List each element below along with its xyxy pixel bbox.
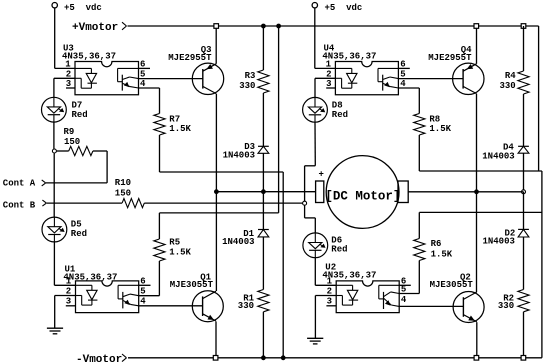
label Q2 [460,272,471,282]
label R7 [169,114,191,134]
svg-text:3: 3 [327,297,332,307]
wire U1 pin4 to Q1 base [139,305,203,307]
wire V1 bus [159,26,278,239]
wire U3 pin4 to R7 [139,88,160,114]
label D4 [482,143,514,162]
label MJE2955T right [428,53,472,63]
svg-text:Red: Red [72,110,88,120]
wire R3 to D3 [262,93,264,146]
net label Cont A [3,178,46,188]
pin 1 U1 [66,276,72,286]
motor M1 body [326,156,399,229]
node Q2 rail square [474,356,479,361]
motor terminal box right [398,181,408,203]
svg-text:Cont B: Cont B [3,200,36,210]
diode D1 1N4003 [258,230,269,237]
wire D3 to motor A wire [262,153,264,191]
node step Cont B junction [303,201,307,205]
pin 4 U3 [140,79,146,89]
net label Cont B [3,200,47,210]
wire U2 pin6 stub [399,284,411,286]
transistor Q2 MJE3055T [453,292,484,323]
svg-text:2: 2 [66,286,71,296]
wire U3 pin3 stub [66,87,75,89]
node R3 rail dot [262,24,266,28]
svg-text:Cont A: Cont A [3,178,36,188]
svg-text:150: 150 [115,188,131,198]
svg-text:1N4003: 1N4003 [482,237,514,247]
diode D4 1N4003 [518,146,529,153]
label R5 [169,238,191,258]
pin 6 U1 [140,276,145,286]
node R9 junction [52,149,56,153]
wire R8 to right edge [419,135,542,171]
pin 5 U4 [400,70,405,80]
svg-text:1: 1 [326,59,332,69]
label R8 [429,114,451,134]
svg-text:MJE2955T: MJE2955T [428,53,472,63]
label D6 [331,236,347,255]
diode D3 1N4003 [258,146,269,153]
node Q3 rail junction [214,24,219,29]
node R4 rail square [521,24,526,29]
wire +5 to U3 pin1 [55,8,75,69]
wire Q2 emitter to rail [476,322,478,358]
wire Cont B to R10 [47,202,122,204]
svg-text:330: 330 [239,81,255,91]
opto U2 body [336,281,399,313]
wire U4 pin4 to R8 [398,88,419,114]
wire +Vmotor rail [128,25,539,27]
resistor R2 [518,290,529,312]
wire U4 pin6 stub [398,67,409,69]
label MJE2955T [168,53,212,63]
pin 3 U3 [66,79,71,89]
wire R7 to -V bus [160,135,284,358]
svg-text:MJE3055T: MJE3055T [430,280,474,290]
wire rail to R4 [523,26,525,71]
svg-text:[DC Motor]: [DC Motor] [325,190,400,204]
svg-text:1.5K: 1.5K [429,124,451,134]
svg-text:1N4003: 1N4003 [223,151,255,161]
node R1 rail dot [262,356,266,360]
wire rail to R3 [262,26,264,70]
pin 1 U2 [327,276,333,286]
svg-text:2: 2 [66,69,71,79]
ground U2 [307,338,323,344]
label R1 [238,294,255,312]
svg-text:+: + [318,169,323,179]
svg-text:1.5K: 1.5K [169,124,191,134]
resistor R4 [518,71,529,94]
svg-text:+5 vdc: +5 vdc [325,3,363,13]
wire motor A column to D1 [262,192,264,230]
wire U1 pin3 stub [66,305,76,307]
node Q1 rail square [213,356,218,361]
wire Q4/Q2 collector bus [476,94,478,292]
wire H4 branch to R6 [419,212,542,238]
wire node to D5 [53,153,55,217]
label R3 [239,71,255,91]
label D2 [482,228,515,246]
label DC Motor [325,190,400,204]
wire U3 pin5 to Q3 base [139,78,203,80]
label Q4 [461,45,472,55]
label D3 [223,142,255,160]
wire D5 to U1 pin1 [54,242,75,285]
wire +5 right to U4 pin1 [315,8,336,69]
terminal +5 vdc (left) [52,2,102,13]
svg-text:150: 150 [64,137,80,147]
wire U3 pin6 stub [139,67,151,69]
svg-text:1.5K: 1.5K [169,248,191,258]
label D8 [332,100,348,120]
label D5 [71,219,87,239]
svg-text:330: 330 [499,81,515,91]
label D1 [222,229,254,247]
wire U3 pin2 to D7 [54,78,75,97]
svg-text:4: 4 [140,297,146,307]
wire Q4 emitter to rail [476,26,478,64]
wire U2 pin3 stub [326,305,336,307]
opto U4 body [335,62,398,95]
wire R1 to rail [262,312,264,358]
svg-text:MJE2955T: MJE2955T [168,53,212,63]
op-to U3 body [75,62,139,95]
node motor A D-column dot [262,190,266,194]
node motor A collector junction [215,190,219,194]
label R2 [498,294,514,312]
svg-text:1N4003: 1N4003 [222,237,254,247]
wire U1 pin2 to ground [55,296,76,329]
wire Q3 emitter to rail [215,26,217,64]
terminal +5 vdc (right) [312,2,362,13]
svg-text:4: 4 [401,295,407,305]
svg-text:330: 330 [238,301,254,311]
svg-text:+5 vdc: +5 vdc [64,3,102,13]
wire R10 to step node [144,202,304,204]
resistor R6 [414,239,425,261]
resistor R5 [154,239,165,261]
label U3 [62,44,116,62]
wire R9 to Cont A line [106,151,108,183]
pin 2 U2 [327,286,332,296]
wire D8 to motor step [305,122,316,233]
LED D5 [42,217,67,242]
svg-text:R6: R6 [431,239,442,249]
wire U2 pin4 to Q2 base [399,305,463,307]
resistor R3 [258,70,269,93]
pin 1 U4 [326,59,332,69]
svg-text:R3: R3 [245,71,256,81]
wire right edge upper [538,26,540,171]
wire R5 to U1 pin5 [139,261,160,296]
wire D4 to motor B node [523,153,525,192]
label U2 [322,262,376,280]
svg-text:Red: Red [331,244,347,254]
pin 5 U2 [401,284,406,294]
pin 2 U3 [66,69,71,79]
pin 5 U1 [140,286,145,296]
opto U1 body [76,281,139,313]
svg-text:2: 2 [327,286,332,296]
label motor plus [318,169,323,179]
node R2 rail square [521,356,526,361]
label R4 [499,71,516,91]
transistor Q4 MJE2955T [453,63,484,94]
wire D1 to R1 [262,237,264,290]
net label +Vmotor [72,22,127,34]
pin 6 U3 [140,59,145,69]
svg-text:MJE3055T: MJE3055T [170,280,214,290]
pin 2 U1 [66,286,71,296]
svg-text:1.5K: 1.5K [431,250,453,260]
svg-text:R10: R10 [115,178,131,188]
node V1 rail dot [277,24,281,28]
wire node to D2 [523,192,525,230]
svg-text:R9: R9 [64,127,75,137]
wire R4 to D4 [523,94,525,146]
svg-text:R8: R8 [429,114,440,124]
LED D7 [42,97,67,122]
wire U2 pin2 to ground [315,296,336,339]
svg-text:1: 1 [66,276,72,286]
resistor R1 [258,290,269,312]
resistor R8 [414,114,425,136]
wire R2 to rail [523,312,525,358]
wire U1 pin6 stub [139,284,151,286]
svg-text:1: 1 [327,276,333,286]
wire U4 pin5 to Q4 base [398,78,463,80]
resistor R9 [57,146,107,155]
net label -Vmotor [76,354,127,364]
wire U4 pin3 stub [326,87,335,89]
diode D2 1N4003 [518,229,529,237]
label D7 [72,100,88,120]
svg-text:-Vmotor: -Vmotor [76,354,122,364]
motor terminal box left [316,181,324,203]
node Q4 rail square [474,24,479,29]
svg-text:1N4003: 1N4003 [482,151,514,161]
svg-text:2: 2 [326,69,331,79]
pin 4 U4 [400,79,406,89]
wire Q1 emitter to rail [215,321,217,357]
label MJE3055T right [430,280,474,290]
wire D6 to U2 pin1 [315,258,336,286]
wire motor terminal B [408,191,523,193]
pin 6 U2 [401,276,406,286]
svg-text:+Vmotor: +Vmotor [72,22,118,34]
pin 2 U4 [326,69,331,79]
label R6 [431,239,453,260]
pin 1 U3 [65,59,71,69]
node -V bus dot [281,356,285,360]
transistor Q3 MJE2955T [192,63,223,94]
svg-text:330: 330 [498,301,514,311]
svg-text:D8: D8 [332,100,343,110]
pin 3 U4 [326,79,331,89]
LED D8 [303,97,328,122]
label R10 [115,178,131,198]
ground U1 [47,328,63,334]
label Q1 [200,272,211,282]
label MJE3055T [170,280,214,290]
svg-text:Red: Red [71,229,87,239]
pin 3 U2 [327,297,332,307]
node motor B terminal circle [522,190,526,194]
wire D2 to R2 [523,237,525,290]
resistor R10 [122,199,144,208]
label U4 [322,44,376,62]
wire right edge lower [541,171,543,358]
wire motor terminal A [216,191,315,193]
svg-text:3: 3 [66,297,71,307]
svg-text:D5: D5 [71,219,82,229]
pin 6 U4 [400,59,405,69]
wire -Vmotor rail [128,357,542,359]
svg-text:Red: Red [332,110,348,120]
svg-text:4N35,36,37: 4N35,36,37 [63,272,117,282]
pin 4 U1 [140,297,146,307]
label U1 [63,264,117,282]
label Q3 [201,45,212,55]
svg-text:R4: R4 [505,71,516,81]
node motor B collector dot [475,190,479,194]
wire U4 pin2 to D8 [315,78,335,97]
pin 5 U3 [140,70,145,80]
svg-text:R7: R7 [169,114,180,124]
svg-text:D7: D7 [72,100,83,110]
svg-text:R5: R5 [169,238,180,248]
wire R6 to U2 pin5 [399,261,419,294]
resistor R7 [154,114,165,136]
wire Cont A [46,182,107,184]
label R9 [64,127,81,147]
svg-text:5: 5 [140,286,145,296]
wire Q3/Q1 collector bus [215,94,217,291]
pin 4 U2 [401,295,407,305]
LED D6 [303,233,328,258]
svg-text:1: 1 [65,59,71,69]
pin 3 U1 [66,297,71,307]
wire D7 to node [53,122,55,149]
transistor Q1 MJE3055T [192,291,223,322]
